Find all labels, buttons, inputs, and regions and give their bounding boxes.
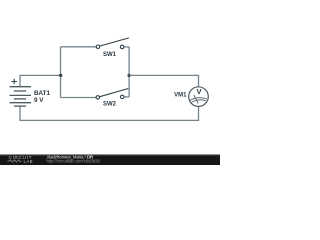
switch SW2 lever [99, 89, 128, 97]
switch SW1 contact circle [120, 45, 124, 49]
svg-text:SW1: SW1 [103, 52, 117, 58]
voltmeter VM1 body [189, 87, 209, 107]
switch SW1 lever [99, 38, 128, 46]
battery BAT1 [10, 87, 32, 106]
wire battery top to left bus [20, 75, 61, 86]
wire SW1 right stub [124, 46, 129, 48]
wire left bus vertical [60, 47, 62, 98]
svg-text:9 V: 9 V [34, 97, 44, 104]
wire left bus to SW2 [61, 97, 97, 99]
svg-text:SW2: SW2 [103, 102, 117, 108]
footer bar [0, 154, 220, 165]
wire left bus to SW1 [61, 46, 97, 48]
switch SW2 pivot circle [96, 96, 100, 100]
switch SW2 contact circle [120, 95, 124, 99]
wire right bus to voltmeter [129, 75, 198, 86]
voltmeter scale arcs [190, 98, 207, 103]
voltmeter needle [194, 95, 198, 104]
wire SW2 right stub [124, 96, 129, 98]
svg-text:VM1: VM1 [174, 93, 187, 99]
footer logo zigzag [8, 160, 22, 162]
battery plus sign [12, 79, 18, 84]
node junction right [127, 74, 130, 77]
switch SW1 pivot circle [96, 45, 100, 49]
svg-text:LAB: LAB [24, 159, 34, 164]
wire voltmeter bottom to battery [20, 106, 199, 120]
svg-text:http://circuitlab.com/c6e5b38: http://circuitlab.com/c6e5b38 [47, 159, 101, 164]
node junction left [59, 74, 62, 77]
wire right bus vertical [128, 47, 130, 97]
svg-text:BAT1: BAT1 [34, 90, 50, 97]
